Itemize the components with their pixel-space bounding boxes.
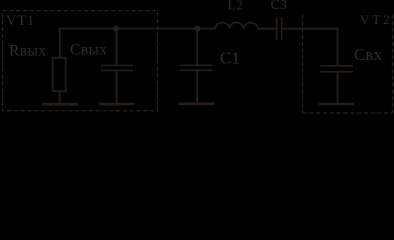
capacitor C3 [277,18,282,40]
wire: main horizontal bus [59,28,216,30]
wire: Свх bottom lead [337,72,339,104]
capacitor Свх [321,66,354,72]
resistor Rвых [53,58,66,91]
capacitor C1 [180,65,213,70]
VT2 dashed box [303,15,393,114]
ground under C1 [179,103,215,106]
svg-text:C1: C1 [220,49,240,68]
svg-text:Свых: Свых [70,41,107,58]
wire: C3 to VT2 corner [282,28,338,30]
wire: vertical down into VT2 to Свх [337,28,339,66]
VT1 dashed box [3,11,158,111]
svg-text:VT1: VT1 [6,13,35,29]
wire: Свых top lead [115,29,117,66]
wire: vertical from bus down to resistor top [59,28,61,58]
svg-text:VT2: VT2 [360,12,393,27]
svg-text:C3: C3 [271,0,287,13]
node: junction above C1 [194,26,200,32]
wire: L2 to C3 [258,28,276,30]
node: junction above Свых [113,26,119,32]
wire: resistor bottom lead [59,91,61,104]
wire: Свых bottom lead [115,70,117,103]
inductor L2 [215,23,258,29]
ground under Свых [99,103,135,106]
svg-text:Rвых: Rвых [9,42,46,59]
capacitor Свых [101,65,133,70]
svg-text:L2: L2 [228,0,244,14]
wire: C1 top lead [196,29,198,66]
wire: C1 bottom lead [196,70,198,103]
svg-text:Свх: Свх [354,45,383,64]
ground under Свх [319,103,355,106]
ground under resistor [42,103,78,106]
